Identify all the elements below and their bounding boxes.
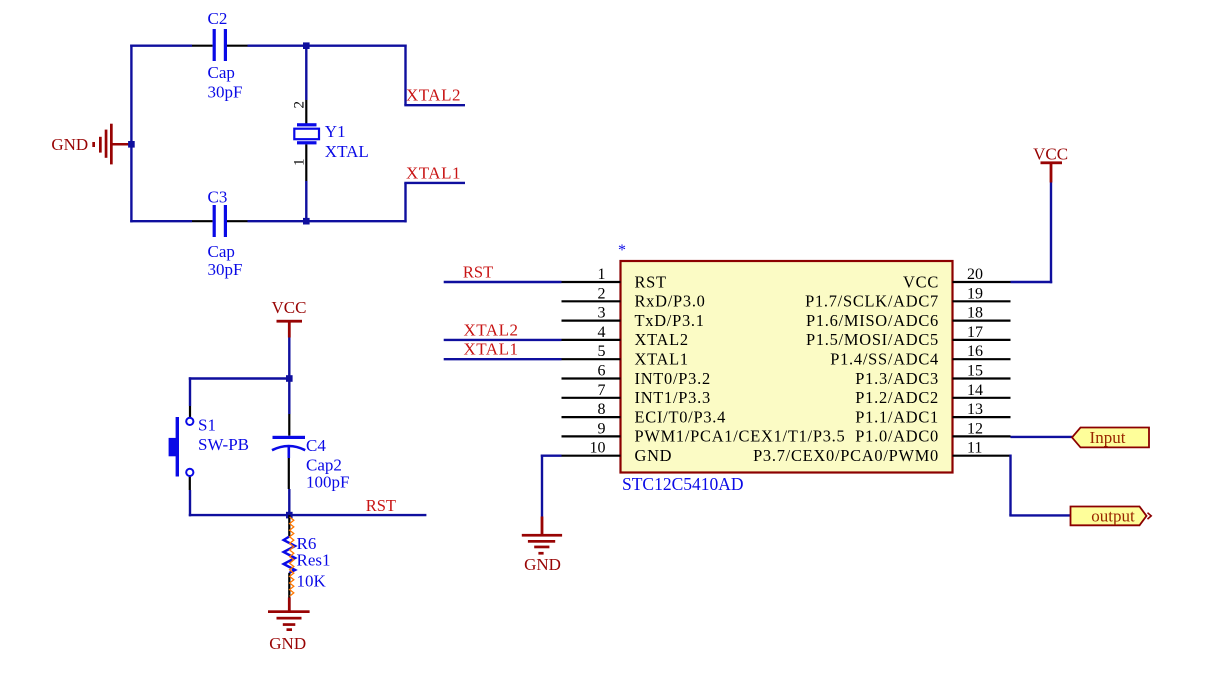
svg-text:output: output — [1091, 507, 1135, 526]
resistor R6 — [284, 515, 331, 597]
pin 4 — [562, 324, 689, 349]
pin 11 — [753, 440, 1010, 465]
junction left (GND) — [128, 141, 135, 148]
ground power port (R6) — [268, 598, 310, 654]
svg-text:SW-PB: SW-PB — [198, 435, 249, 454]
svg-text:P1.6/MISO/ADC6: P1.6/MISO/ADC6 — [806, 311, 939, 330]
svg-text:4: 4 — [598, 324, 606, 341]
svg-text:P1.3/ADC3: P1.3/ADC3 — [855, 369, 939, 388]
svg-text:Res1: Res1 — [297, 551, 331, 570]
svg-text:9: 9 — [598, 420, 606, 437]
junction bottom (C3/Y1) — [303, 218, 310, 225]
power port VCC (reset) — [272, 298, 307, 338]
svg-text:2: 2 — [292, 101, 308, 109]
svg-text:16: 16 — [967, 343, 983, 360]
wire RST horizontal — [189, 514, 427, 516]
port Input — [1072, 428, 1149, 448]
svg-text:INT1/P3.3: INT1/P3.3 — [635, 388, 711, 407]
pin 20 — [903, 266, 1010, 291]
junction VCC node — [286, 375, 293, 382]
power port VCC (MCU) — [1033, 145, 1068, 183]
svg-text:1: 1 — [292, 159, 308, 167]
svg-text:13: 13 — [967, 401, 983, 418]
pin 13 — [855, 401, 1010, 426]
ground power port (MCU) — [522, 517, 562, 575]
svg-text:*: * — [618, 242, 626, 259]
wire pin 11 to output port — [1009, 514, 1070, 516]
capacitor C2 — [192, 9, 248, 102]
svg-text:30pF: 30pF — [208, 260, 243, 279]
junction RST node — [286, 512, 293, 519]
svg-text:XTAL1: XTAL1 — [635, 350, 689, 369]
pin 18 — [806, 305, 1011, 330]
svg-text:14: 14 — [967, 382, 983, 399]
svg-text:VCC: VCC — [1033, 145, 1068, 164]
port output — [1071, 507, 1152, 526]
svg-text:3: 3 — [598, 305, 606, 322]
wire XTAL1 to pin 5 — [444, 358, 562, 360]
svg-text:8: 8 — [598, 401, 606, 418]
svg-text:19: 19 — [967, 285, 983, 302]
svg-text:GND: GND — [269, 634, 306, 653]
pin 9 — [562, 420, 846, 445]
svg-text:XTAL2: XTAL2 — [406, 86, 461, 105]
svg-text:GND: GND — [51, 135, 88, 154]
pin 8 — [562, 401, 727, 426]
wire left vertical — [130, 45, 132, 223]
svg-text:XTAL2: XTAL2 — [635, 330, 689, 349]
svg-text:C3: C3 — [208, 188, 228, 207]
svg-text:XTAL2: XTAL2 — [464, 320, 519, 339]
svg-text:5: 5 — [598, 343, 606, 360]
svg-text:P1.0/ADC0: P1.0/ADC0 — [855, 427, 939, 446]
wire XTAL2 branch vertical — [404, 45, 406, 106]
svg-text:PWM1/PCA1/CEX1/T1/P3.5: PWM1/PCA1/CEX1/T1/P3.5 — [635, 427, 846, 446]
IC U1 STC12C5410AD body — [621, 261, 953, 473]
crystal Y1 — [292, 46, 369, 223]
wire VCC vertical — [1050, 183, 1052, 284]
pin 12 — [855, 420, 1010, 445]
pin 5 — [562, 343, 689, 368]
svg-text:RST: RST — [366, 496, 396, 515]
svg-text:20: 20 — [967, 266, 983, 283]
wire pin 11 vertical — [1009, 455, 1011, 516]
wire junction to switch branch — [189, 377, 291, 379]
svg-text:RST: RST — [635, 272, 667, 291]
svg-text:7: 7 — [598, 382, 606, 399]
svg-text:STC12C5410AD: STC12C5410AD — [622, 474, 744, 494]
pin 1 — [562, 266, 667, 291]
pin 15 — [855, 363, 1010, 388]
wire pin 10 to GND horizontal — [541, 455, 562, 457]
pin 17 — [806, 324, 1011, 349]
pin 14 — [855, 382, 1010, 407]
wire VCC to junction — [288, 338, 290, 380]
svg-text:INT0/P3.2: INT0/P3.2 — [635, 369, 711, 388]
error squiggle marker — [290, 517, 294, 596]
svg-text:VCC: VCC — [272, 298, 307, 317]
svg-text:Cap: Cap — [208, 242, 235, 261]
svg-text:12: 12 — [967, 420, 983, 437]
pin 2 — [562, 285, 706, 310]
capacitor C4 — [272, 380, 349, 492]
wire switch bottom vertical — [189, 490, 191, 516]
pin 3 — [562, 305, 705, 330]
wire C4 bottom — [288, 489, 290, 516]
pin 7 — [562, 382, 711, 407]
svg-text:P1.5/MOSI/ADC5: P1.5/MOSI/ADC5 — [806, 330, 939, 349]
pin 16 — [830, 343, 1010, 368]
wire XTAL1 stub horizontal — [404, 182, 465, 184]
svg-text:GND: GND — [635, 446, 673, 465]
pin 19 — [805, 285, 1010, 310]
svg-text:ECI/T0/P3.4: ECI/T0/P3.4 — [635, 407, 727, 426]
svg-text:XTAL1: XTAL1 — [406, 163, 461, 182]
wire XTAL1 branch vertical — [404, 183, 406, 223]
svg-text:TxD/P3.1: TxD/P3.1 — [635, 311, 705, 330]
capacitor C3 — [192, 188, 248, 280]
wire XTAL2 stub horizontal — [404, 104, 465, 106]
svg-text:C2: C2 — [208, 9, 228, 28]
svg-text:10: 10 — [590, 440, 606, 457]
svg-text:Y1: Y1 — [325, 122, 346, 141]
wire VCC to pin 20 — [1011, 281, 1053, 283]
switch S1 — [169, 406, 249, 490]
svg-text:100pF: 100pF — [306, 472, 349, 491]
pin 10 — [562, 440, 673, 465]
svg-text:P1.2/ADC2: P1.2/ADC2 — [855, 388, 939, 407]
wire bottom horizontal (right of C3) — [248, 220, 407, 222]
wire switch branch vertical — [189, 377, 191, 406]
svg-text:6: 6 — [598, 363, 606, 380]
svg-text:2: 2 — [598, 285, 606, 302]
svg-text:30pF: 30pF — [208, 83, 243, 102]
svg-text:18: 18 — [967, 305, 983, 322]
svg-text:C4: C4 — [306, 436, 326, 455]
svg-text:Cap: Cap — [208, 63, 235, 82]
wire top-left horizontal (left of C2) — [130, 45, 192, 47]
svg-text:RST: RST — [463, 262, 493, 281]
svg-text:RxD/P3.0: RxD/P3.0 — [635, 292, 706, 311]
pin 6 — [562, 363, 711, 388]
svg-text:P3.7/CEX0/PCA0/PWM0: P3.7/CEX0/PCA0/PWM0 — [753, 446, 939, 465]
wire XTAL2 to pin 4 — [444, 339, 562, 341]
svg-text:15: 15 — [967, 363, 983, 380]
wire pin 10 GND vertical — [541, 455, 543, 517]
svg-text:S1: S1 — [198, 416, 216, 435]
wire RST to pin 1 — [444, 281, 562, 283]
wire top horizontal (right of C2 to XTAL2 branch) — [248, 45, 407, 47]
wire pin 12 to Input port — [1011, 436, 1073, 438]
wire bottom horizontal (left of C3) — [130, 220, 192, 222]
svg-text:Input: Input — [1090, 428, 1126, 447]
svg-text:XTAL1: XTAL1 — [464, 340, 519, 359]
svg-text:1: 1 — [598, 266, 606, 283]
svg-text:GND: GND — [524, 555, 561, 574]
svg-text:P1.4/SS/ADC4: P1.4/SS/ADC4 — [830, 350, 939, 369]
junction top (C2/Y1) — [303, 42, 310, 49]
svg-text:10K: 10K — [297, 572, 327, 591]
svg-text:VCC: VCC — [903, 272, 939, 291]
svg-text:P1.7/SCLK/ADC7: P1.7/SCLK/ADC7 — [805, 292, 939, 311]
svg-text:P1.1/ADC1: P1.1/ADC1 — [855, 407, 939, 426]
svg-text:XTAL: XTAL — [325, 142, 369, 161]
svg-text:17: 17 — [967, 324, 983, 341]
svg-text:11: 11 — [967, 440, 982, 457]
ground power port (crystal) — [51, 124, 130, 165]
